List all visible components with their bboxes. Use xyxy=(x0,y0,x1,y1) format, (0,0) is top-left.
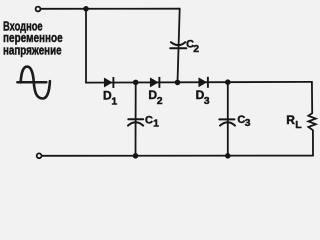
svg-text:3: 3 xyxy=(245,117,251,129)
svg-text:2: 2 xyxy=(193,43,199,55)
diode D3 xyxy=(199,77,208,88)
label C2 xyxy=(186,39,199,55)
wire bottom rail xyxy=(42,155,313,157)
wire top rail xyxy=(41,8,180,10)
svg-text:3: 3 xyxy=(204,95,210,107)
node D3-C3 junction xyxy=(225,79,231,85)
terminal top input xyxy=(36,7,41,12)
label D1 xyxy=(103,89,117,108)
label D2 xyxy=(148,88,162,107)
wire right rail with resistor RL zigzag xyxy=(308,82,315,156)
svg-text:R: R xyxy=(286,113,295,127)
diode D1 xyxy=(104,77,113,88)
terminal bottom input xyxy=(37,153,42,158)
svg-text:L: L xyxy=(295,119,302,131)
label D3 xyxy=(196,88,210,107)
node C1 bottom junction xyxy=(133,153,139,159)
AC source sine symbol xyxy=(17,67,50,99)
node top input junction xyxy=(83,6,89,12)
wire left branch vertical xyxy=(85,9,87,83)
label C1 xyxy=(145,114,159,129)
svg-text:1: 1 xyxy=(111,95,117,107)
diode D2 xyxy=(150,77,159,88)
capacitor C1 xyxy=(128,119,143,125)
capacitor C3 xyxy=(219,119,235,125)
svg-text:напряжение: напряжение xyxy=(3,44,62,58)
label C3 xyxy=(237,114,250,129)
wire middle row xyxy=(86,81,312,84)
node D1-C1 junction xyxy=(133,80,139,86)
svg-text:1: 1 xyxy=(153,117,159,129)
node D2-C2 junction xyxy=(175,80,181,86)
capacitor C2 xyxy=(170,42,186,48)
label: input voltage text xyxy=(3,20,63,58)
label RL xyxy=(286,113,302,131)
wire C3 branch vertical xyxy=(227,82,229,156)
svg-text:C: C xyxy=(145,114,153,126)
wire C1 branch vertical xyxy=(135,82,137,155)
node C3 bottom junction xyxy=(225,153,231,159)
wire C2 branch vertical xyxy=(178,9,180,83)
svg-text:2: 2 xyxy=(157,95,163,107)
